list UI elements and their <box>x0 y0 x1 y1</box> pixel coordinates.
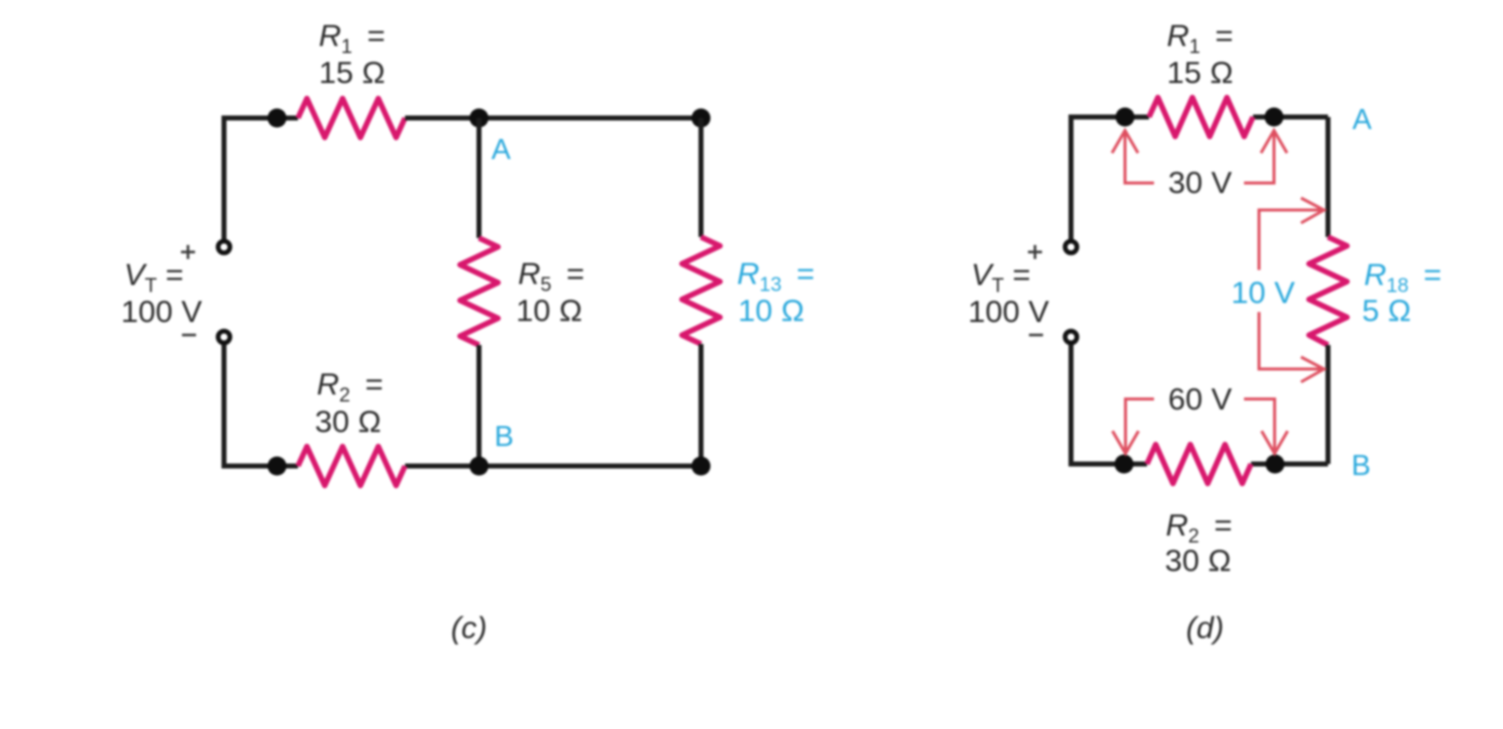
voltage source VT negative terminal (c) <box>218 331 230 343</box>
10 V arrow top (d) <box>1259 198 1324 270</box>
resistor R1 (d) <box>1149 98 1253 137</box>
svg-text:5 Ω: 5 Ω <box>1362 293 1411 328</box>
wire: right rail lower (d) <box>1326 345 1331 464</box>
wire: left rail upper segment (d) <box>1071 117 1149 239</box>
svg-text:VT =: VT = <box>124 257 184 297</box>
resistor R13 (c) <box>682 237 720 344</box>
10 V arrow bottom (d) <box>1259 312 1324 382</box>
junction dot left of R1 (c) <box>268 109 287 128</box>
svg-text:R2 =: R2 = <box>1166 508 1232 548</box>
resistor R1 (c) <box>298 99 405 138</box>
svg-text:10 V: 10 V <box>1231 275 1295 310</box>
label R1 = 15 ohm (d) <box>1167 18 1233 90</box>
label R2 = 30 ohm (c) <box>315 367 383 440</box>
junction dot top-right corner (c) <box>692 109 711 128</box>
30 V arrow left (d) <box>1112 131 1154 184</box>
label R5 = 10 ohm (c) <box>516 256 584 328</box>
label R1 = 15 ohm (c) <box>319 18 385 90</box>
30 V arrow right (d) <box>1244 131 1287 184</box>
svg-text:VT =: VT = <box>971 257 1031 297</box>
resistor R5 (c) <box>460 238 498 345</box>
resistor R2 (c) <box>298 447 405 486</box>
svg-text:100 V: 100 V <box>121 294 202 329</box>
svg-text:R18 =: R18 = <box>1364 257 1442 297</box>
svg-text:A: A <box>1352 104 1372 136</box>
svg-text:15 Ω: 15 Ω <box>1167 55 1233 90</box>
wire: top rail between R1 and node A (c) <box>405 116 479 121</box>
label VT = 100 V (d) <box>968 257 1049 329</box>
label R2 = 30 ohm (d) <box>1165 508 1232 579</box>
60 V arrow left (d) <box>1113 399 1155 454</box>
wire: top rail node A to top-right corner (c) <box>479 116 701 121</box>
svg-text:30 V: 30 V <box>1168 165 1232 200</box>
junction dot right of R1 (d) <box>1265 108 1284 127</box>
voltage source VT positive terminal (c) <box>218 241 230 253</box>
svg-text:R2 =: R2 = <box>317 367 383 407</box>
wire: bottom rail node B to bottom-right corner (c) <box>479 464 701 469</box>
svg-text:60 V: 60 V <box>1168 382 1232 417</box>
label R18 = 5 ohm (d) <box>1362 257 1442 328</box>
wire: left rail upper segment (c) <box>224 118 298 239</box>
wire: left rail lower segment (c) <box>224 345 298 466</box>
node B junction dot (c) <box>470 457 489 476</box>
wire: top rail (d) <box>1253 115 1328 120</box>
svg-text:R1 =: R1 = <box>1167 18 1233 58</box>
svg-text:A: A <box>491 134 511 166</box>
wire: bottom rail (c) <box>405 464 479 469</box>
resistor R2 (d) <box>1147 445 1251 484</box>
svg-text:(c): (c) <box>451 610 487 645</box>
label - polarity (d) <box>1029 334 1043 337</box>
svg-text:R5 =: R5 = <box>518 256 584 296</box>
label - polarity (c) <box>182 334 196 337</box>
svg-text:10 Ω: 10 Ω <box>516 293 582 328</box>
label + polarity (d) <box>1028 245 1042 259</box>
label + polarity (c) <box>181 245 195 259</box>
svg-text:(d): (d) <box>1186 610 1224 645</box>
voltage source VT positive terminal (d) <box>1065 241 1077 253</box>
junction dot left of R1 (d) <box>1116 108 1135 127</box>
svg-text:30 Ω: 30 Ω <box>315 404 381 439</box>
junction dot left of R2 (d) <box>1115 455 1134 474</box>
label VT = 100 V (c) <box>121 257 202 329</box>
svg-text:100 V: 100 V <box>968 294 1049 329</box>
junction dot left of R2 (c) <box>268 457 287 476</box>
wire: middle rail lower (c) <box>477 345 482 466</box>
wire: right rail lower (c) <box>699 344 704 466</box>
label R13 = 10 ohm (c) <box>737 256 815 328</box>
wire: right rail upper (c) <box>699 118 704 237</box>
svg-text:B: B <box>494 421 513 453</box>
voltage source VT negative terminal (d) <box>1065 331 1077 343</box>
svg-text:R1 =: R1 = <box>319 18 385 58</box>
junction dot right of R2 (d) <box>1266 455 1285 474</box>
wire: left rail lower segment (d) <box>1071 345 1147 464</box>
resistor R18 (d) <box>1309 237 1347 345</box>
wire: right rail upper (d) <box>1326 117 1331 237</box>
svg-text:15 Ω: 15 Ω <box>319 55 385 90</box>
svg-text:B: B <box>1351 450 1370 482</box>
svg-text:10 Ω: 10 Ω <box>738 293 804 328</box>
node A junction dot (c) <box>470 109 489 128</box>
60 V arrow right (d) <box>1244 399 1288 454</box>
svg-text:30 Ω: 30 Ω <box>1165 543 1231 578</box>
wire: middle rail upper (c) <box>477 118 482 238</box>
wire: bottom rail (d) <box>1251 462 1328 467</box>
junction dot bottom-right corner (c) <box>692 457 711 476</box>
svg-text:R13 =: R13 = <box>737 256 815 296</box>
